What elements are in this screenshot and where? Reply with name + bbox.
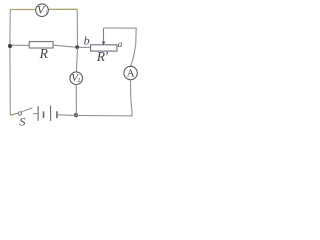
svg-text:S: S — [19, 115, 25, 128]
svg-text:2: 2 — [77, 77, 80, 84]
svg-text:A: A — [127, 67, 135, 79]
svg-text:b: b — [84, 34, 90, 48]
svg-text:R′: R′ — [96, 49, 109, 64]
svg-text:R: R — [39, 46, 49, 61]
svg-text:1: 1 — [45, 10, 48, 16]
svg-text:a: a — [118, 40, 123, 50]
